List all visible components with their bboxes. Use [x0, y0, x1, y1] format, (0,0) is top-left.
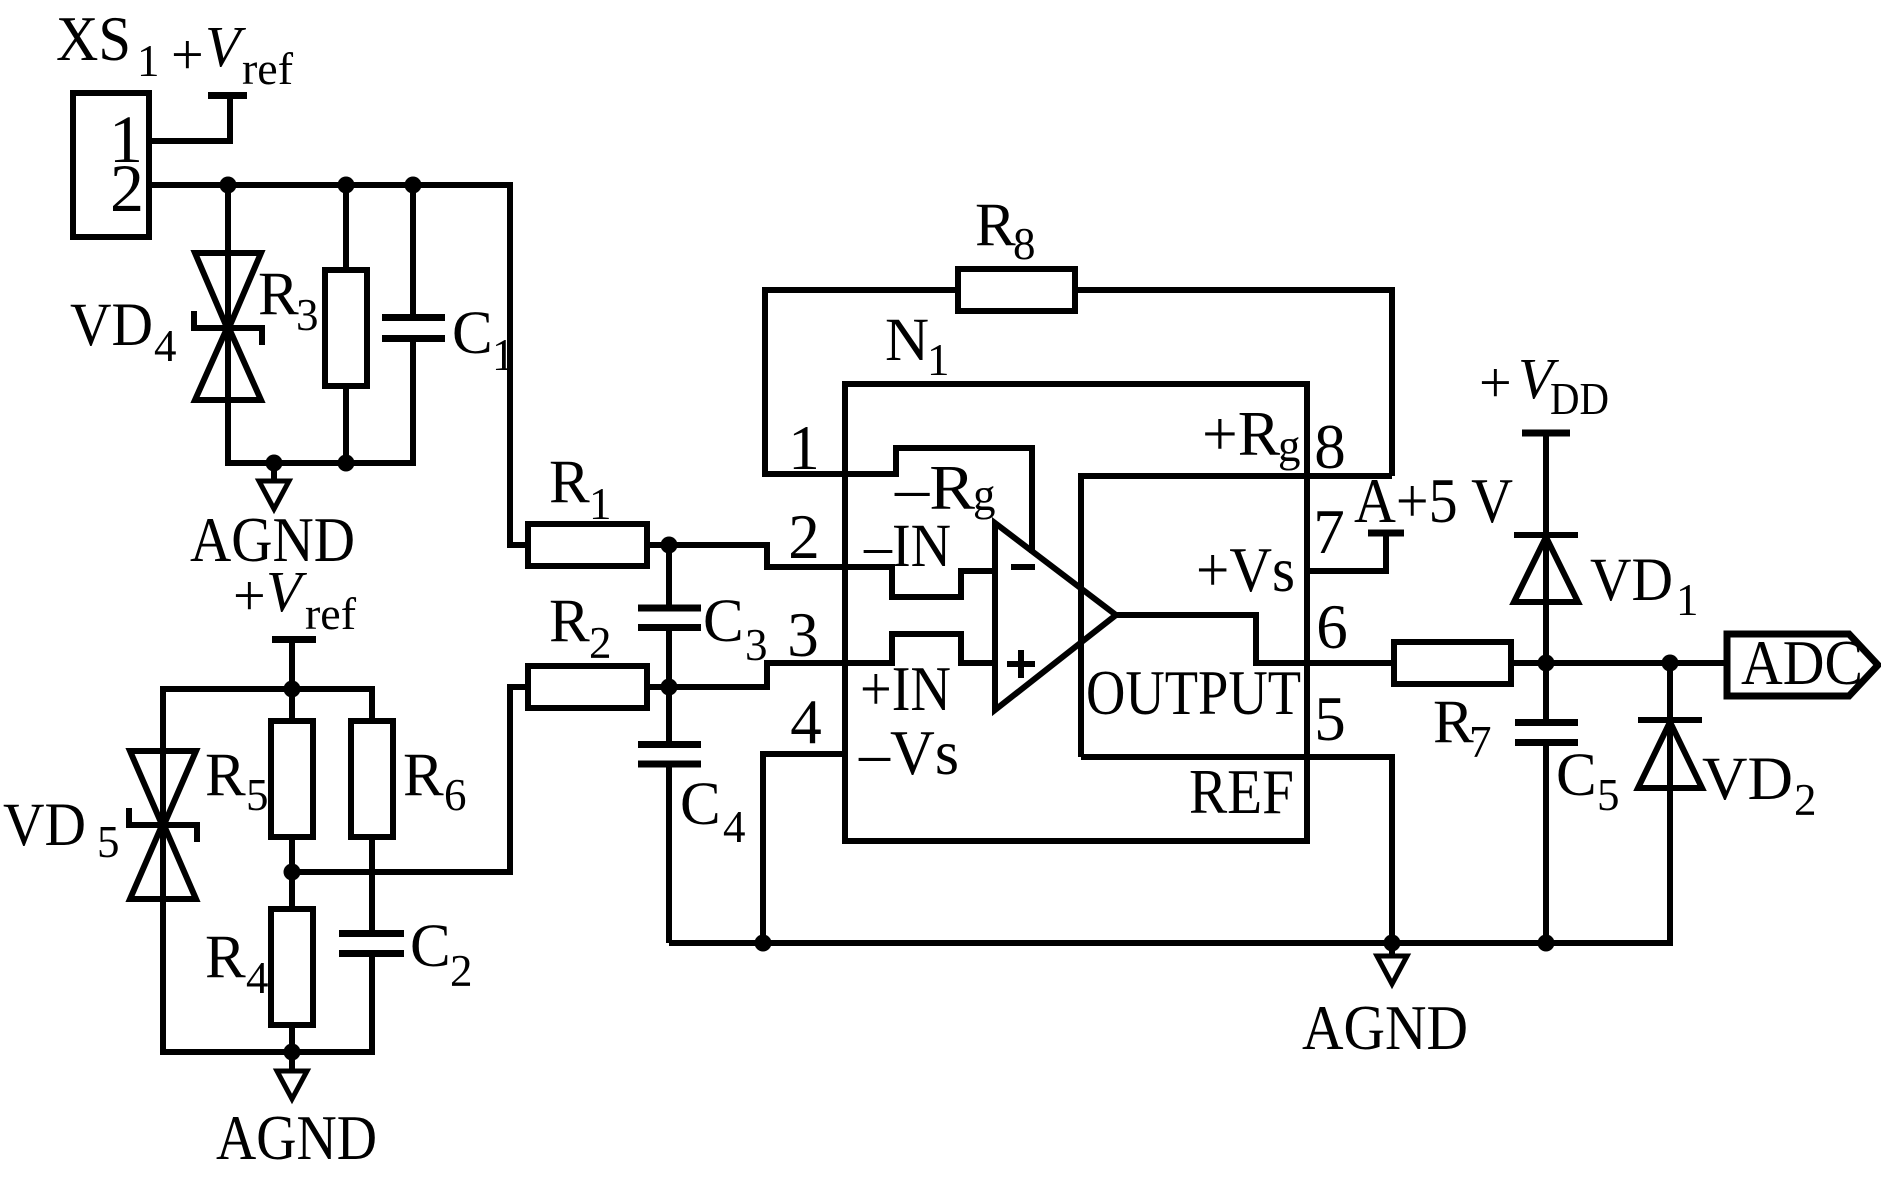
svg-text:+R: +R — [1202, 399, 1280, 469]
TVS diode VD5 — [129, 751, 197, 899]
wire feedback rail left + pin1 — [765, 290, 958, 474]
svg-text:C: C — [680, 771, 721, 838]
svg-text:8: 8 — [1314, 412, 1346, 482]
svg-text:2: 2 — [110, 150, 144, 226]
svg-text:1: 1 — [788, 413, 820, 483]
resistor R3 — [325, 270, 367, 386]
power A+5V bar — [1368, 530, 1404, 537]
svg-text:R: R — [1433, 689, 1474, 756]
svg-text:+: + — [233, 563, 266, 628]
svg-text:AGND: AGND — [1302, 993, 1468, 1063]
op-amp minus input mark — [1011, 564, 1035, 570]
resistor R6 — [351, 721, 393, 837]
in-amp internal -Rg path — [845, 448, 1032, 553]
svg-text:N: N — [885, 307, 929, 374]
label R4 — [205, 924, 269, 1003]
svg-text:DD: DD — [1550, 374, 1609, 424]
svg-text:VD: VD — [70, 292, 153, 359]
svg-text:R: R — [549, 449, 590, 516]
wire pin7 to A+5V — [1307, 533, 1386, 571]
svg-text:AGND: AGND — [216, 1103, 377, 1173]
node dot R2/C4 — [661, 679, 678, 696]
wire output / pin6 — [1116, 615, 1394, 663]
resistor R8 — [958, 269, 1075, 311]
label -Rg — [894, 453, 996, 523]
svg-text:3: 3 — [787, 600, 819, 670]
svg-text:VD: VD — [3, 792, 86, 859]
label R7 — [1433, 689, 1492, 767]
wire pin4 to ground bus — [763, 754, 845, 943]
wire REF row / pin5 drop — [1081, 757, 1392, 943]
resistor R5 — [271, 721, 313, 837]
svg-text:7: 7 — [1469, 717, 1492, 767]
svg-text:2: 2 — [450, 946, 473, 996]
resistor R1 — [528, 524, 647, 566]
svg-text:4: 4 — [154, 321, 177, 371]
svg-text:8: 8 — [1013, 219, 1036, 269]
svg-text:ADC: ADC — [1741, 628, 1863, 698]
resistor R7 — [1394, 642, 1511, 684]
svg-text:VD: VD — [1590, 547, 1673, 614]
capacitor C2 — [339, 934, 404, 954]
node dot R1/C3 — [661, 537, 678, 554]
label C5 — [1556, 742, 1620, 820]
TVS diode VD4 — [194, 253, 262, 400]
svg-text:C: C — [452, 300, 493, 367]
node dot REF/bus — [1384, 935, 1401, 952]
svg-text:R: R — [549, 588, 590, 655]
svg-text:+IN: +IN — [860, 654, 951, 724]
resistor R4 — [271, 909, 313, 1025]
label R5 — [205, 742, 269, 820]
node dot C5/bus — [1538, 935, 1555, 952]
svg-text:R: R — [205, 924, 246, 991]
svg-text:2: 2 — [589, 618, 612, 668]
capacitor C3 — [638, 608, 701, 628]
label VD4 — [70, 292, 177, 371]
node dot rail/R3 — [338, 455, 355, 472]
svg-text:5: 5 — [1597, 770, 1620, 820]
output tag ADC — [1727, 628, 1878, 698]
svg-text:C: C — [703, 588, 744, 655]
capacitor C4 — [638, 745, 701, 765]
svg-text:R: R — [258, 261, 299, 328]
node dot pin2/VD4 — [220, 177, 237, 194]
svg-text:+Vs: +Vs — [1196, 535, 1295, 605]
diode VD2 — [1638, 663, 1702, 946]
label N1 — [885, 307, 950, 385]
svg-text:1: 1 — [927, 335, 950, 385]
svg-text:ref: ref — [242, 44, 293, 94]
svg-text:REF: REF — [1189, 757, 1294, 827]
svg-text:–IN: –IN — [863, 513, 951, 580]
wire R7 to ADC — [1511, 660, 1730, 666]
wire XS1 pin1 to +Vref — [149, 95, 230, 141]
node dot pin2/R3 — [338, 177, 355, 194]
op-amp triangle — [995, 523, 1116, 710]
svg-text:C: C — [1556, 742, 1597, 809]
svg-text:1: 1 — [492, 330, 515, 380]
wire R3 stem — [343, 185, 349, 466]
svg-text:6: 6 — [444, 770, 467, 820]
node dot +Vref/R5 — [284, 681, 301, 698]
wire R6 stems — [369, 835, 375, 932]
ground AGND top-left — [259, 463, 289, 509]
node dot pin4/bus — [755, 935, 772, 952]
diode VD1 — [1514, 433, 1578, 663]
connector XS1 — [56, 4, 160, 237]
label C2 — [410, 913, 473, 996]
svg-text:4: 4 — [723, 802, 746, 852]
svg-text:R: R — [975, 192, 1016, 259]
svg-text:g: g — [1278, 421, 1301, 471]
in-amp N1 box — [845, 384, 1307, 841]
resistor R2 — [528, 666, 647, 708]
svg-text:2: 2 — [1794, 775, 1817, 825]
svg-text:2: 2 — [788, 502, 820, 572]
label VD1 — [1590, 547, 1699, 625]
wire R2 to N1 pin3 (+IN) — [647, 634, 995, 687]
svg-text:4: 4 — [790, 687, 822, 757]
wire feedback rail right + pin8 vertical — [1075, 290, 1392, 476]
svg-text:+: + — [1479, 350, 1512, 415]
svg-text:7: 7 — [1313, 497, 1345, 567]
node dot rail/AGND — [266, 455, 283, 472]
node dot VD2 — [1662, 655, 1679, 672]
label R6 — [403, 742, 467, 820]
svg-text:5: 5 — [246, 770, 269, 820]
ground AGND bottom-left — [277, 1052, 307, 1099]
ground AGND bottom-right — [1377, 943, 1407, 984]
op-amp plus input mark — [1007, 650, 1035, 678]
wire ground bus bottom — [669, 940, 1670, 946]
label VD2 — [1702, 746, 1817, 825]
label R2 — [549, 588, 612, 668]
wire C3 stem — [666, 545, 672, 687]
power +VDD — [1479, 346, 1609, 433]
wire +Rg row / pin8 — [1081, 473, 1392, 479]
svg-text:3: 3 — [296, 290, 319, 340]
svg-text:5: 5 — [97, 817, 120, 867]
svg-text:1: 1 — [137, 36, 160, 86]
wire C4 stem — [666, 687, 672, 943]
capacitor C5 — [1515, 663, 1578, 943]
wire R4 stems — [289, 872, 295, 1052]
svg-text:+: + — [171, 22, 204, 87]
svg-text:R: R — [403, 742, 444, 809]
capacitor C1 — [382, 318, 445, 339]
label R3 — [258, 261, 319, 340]
svg-text:1: 1 — [589, 479, 612, 529]
wire VD5 stem — [163, 689, 372, 1052]
wire XS1 pin2 bus to R1 — [149, 185, 530, 545]
power +Vref rail mid — [233, 559, 356, 640]
svg-text:XS: XS — [56, 4, 131, 74]
svg-text:R: R — [205, 742, 246, 809]
node dot rail/R4 — [284, 1044, 301, 1061]
svg-text:ref: ref — [305, 589, 356, 639]
inner output box left edge — [1078, 473, 1084, 757]
label C4 — [680, 771, 746, 852]
node dot pin2/C1 — [405, 177, 422, 194]
node dot VD1/C5 — [1538, 655, 1555, 672]
svg-text:–Vs: –Vs — [858, 718, 959, 788]
wire divider node to R2 — [292, 687, 530, 872]
svg-text:g: g — [973, 470, 996, 520]
svg-text:5: 5 — [1314, 684, 1346, 754]
label +Rg — [1202, 399, 1301, 471]
svg-text:1: 1 — [1676, 575, 1699, 625]
label R8 — [975, 192, 1036, 269]
label C1 — [452, 300, 515, 380]
power +Vref rail top — [171, 14, 293, 96]
wire VD4 stem — [228, 185, 413, 463]
svg-text:4: 4 — [246, 953, 269, 1003]
wire C1 stem — [410, 185, 416, 316]
svg-text:VD: VD — [1702, 746, 1793, 813]
wire +Vref stem — [289, 641, 295, 689]
svg-text:6: 6 — [1316, 592, 1348, 662]
node dot R5/R4 — [284, 864, 301, 881]
wire R5 stems — [289, 689, 295, 875]
label C3 — [703, 588, 768, 670]
label VD5 — [3, 792, 120, 867]
svg-text:OUTPUT: OUTPUT — [1086, 658, 1301, 728]
label R1 — [549, 449, 612, 529]
svg-text:A+5 V: A+5 V — [1354, 466, 1513, 536]
wire R1 to N1 pin2 (-IN) — [647, 545, 995, 597]
svg-text:C: C — [410, 913, 451, 980]
